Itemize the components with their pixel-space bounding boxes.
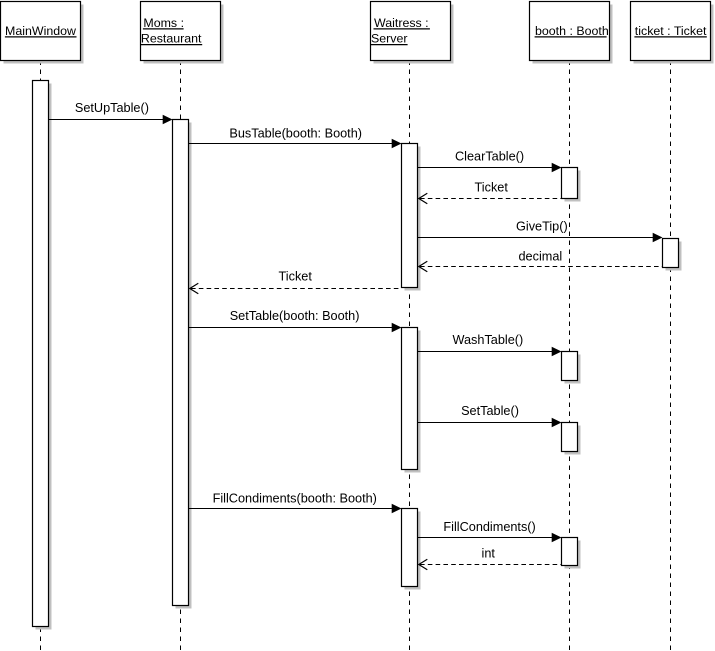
lifeline booth : Booth: [569, 61, 571, 651]
activation bar booth 1: [562, 168, 581, 202]
activation bar ticket 1: [663, 239, 682, 271]
message SetUpTable(): [49, 101, 173, 124]
lifeline Waitress : Server: [409, 61, 411, 651]
message FillCondiments(booth: Booth): [189, 492, 402, 514]
message BusTable(booth: Booth): [189, 127, 402, 149]
svg-text:MainWindow: MainWindow: [5, 24, 76, 38]
svg-text:Server: Server: [371, 32, 408, 46]
return message Ticket (booth to waitress): [419, 181, 562, 204]
message SetTable(): [418, 404, 562, 427]
message GiveTip(): [418, 220, 663, 243]
activation bar MainWindow: [33, 81, 52, 630]
activation bar booth 2: [562, 352, 581, 384]
svg-text:Restaurant: Restaurant: [141, 32, 202, 46]
lifeline Moms : Restaurant: [180, 61, 182, 651]
return message Ticket (waitress to moms): [190, 270, 402, 294]
object head Waitress : Server: [371, 2, 454, 64]
svg-text:SetTable(booth: Booth): SetTable(booth: Booth): [230, 309, 360, 323]
svg-text:SetUpTable(): SetUpTable(): [75, 101, 149, 115]
svg-text:int: int: [482, 547, 496, 561]
svg-text:Ticket: Ticket: [279, 270, 313, 284]
lifeline ticket : Ticket: [670, 61, 672, 651]
svg-text:booth : Booth: booth : Booth: [535, 24, 609, 38]
svg-text:BusTable(booth: Booth): BusTable(booth: Booth): [229, 127, 362, 141]
message ClearTable(): [418, 149, 562, 172]
svg-text:SetTable(): SetTable(): [461, 404, 519, 418]
lifeline MainWindow: [40, 61, 42, 651]
message SetTable(booth: Booth): [189, 309, 402, 332]
svg-text:FillCondiments(): FillCondiments(): [443, 520, 535, 534]
svg-text:GiveTip(): GiveTip(): [516, 220, 568, 234]
object head ticket : Ticket: [631, 2, 714, 64]
return message int (booth to waitress): [419, 547, 562, 570]
return message decimal (ticket to waitress): [419, 250, 663, 272]
object head booth : Booth: [530, 2, 613, 64]
svg-text:ticket : Ticket: ticket : Ticket: [635, 24, 707, 38]
message FillCondiments(): [418, 520, 562, 542]
svg-text:FillCondiments(booth: Booth): FillCondiments(booth: Booth): [213, 492, 377, 506]
activation bar Waitress 3: [402, 509, 421, 590]
activation bar Waitress 1: [402, 144, 421, 291]
activation bar booth 3: [562, 423, 581, 455]
svg-text:Moms :: Moms :: [143, 16, 184, 30]
object head Moms : Restaurant: [141, 2, 224, 64]
activation bar Moms : Restaurant: [173, 120, 192, 609]
message WashTable(): [418, 333, 562, 356]
activation bar Waitress 2: [402, 328, 421, 473]
svg-text:Ticket: Ticket: [475, 181, 509, 195]
svg-text:WashTable(): WashTable(): [453, 333, 524, 347]
activation bar booth 4: [562, 538, 581, 569]
object head MainWindow: [1, 2, 84, 64]
svg-text:Waitress :: Waitress :: [374, 16, 429, 30]
svg-text:decimal: decimal: [519, 250, 563, 264]
svg-text:ClearTable(): ClearTable(): [455, 149, 524, 163]
